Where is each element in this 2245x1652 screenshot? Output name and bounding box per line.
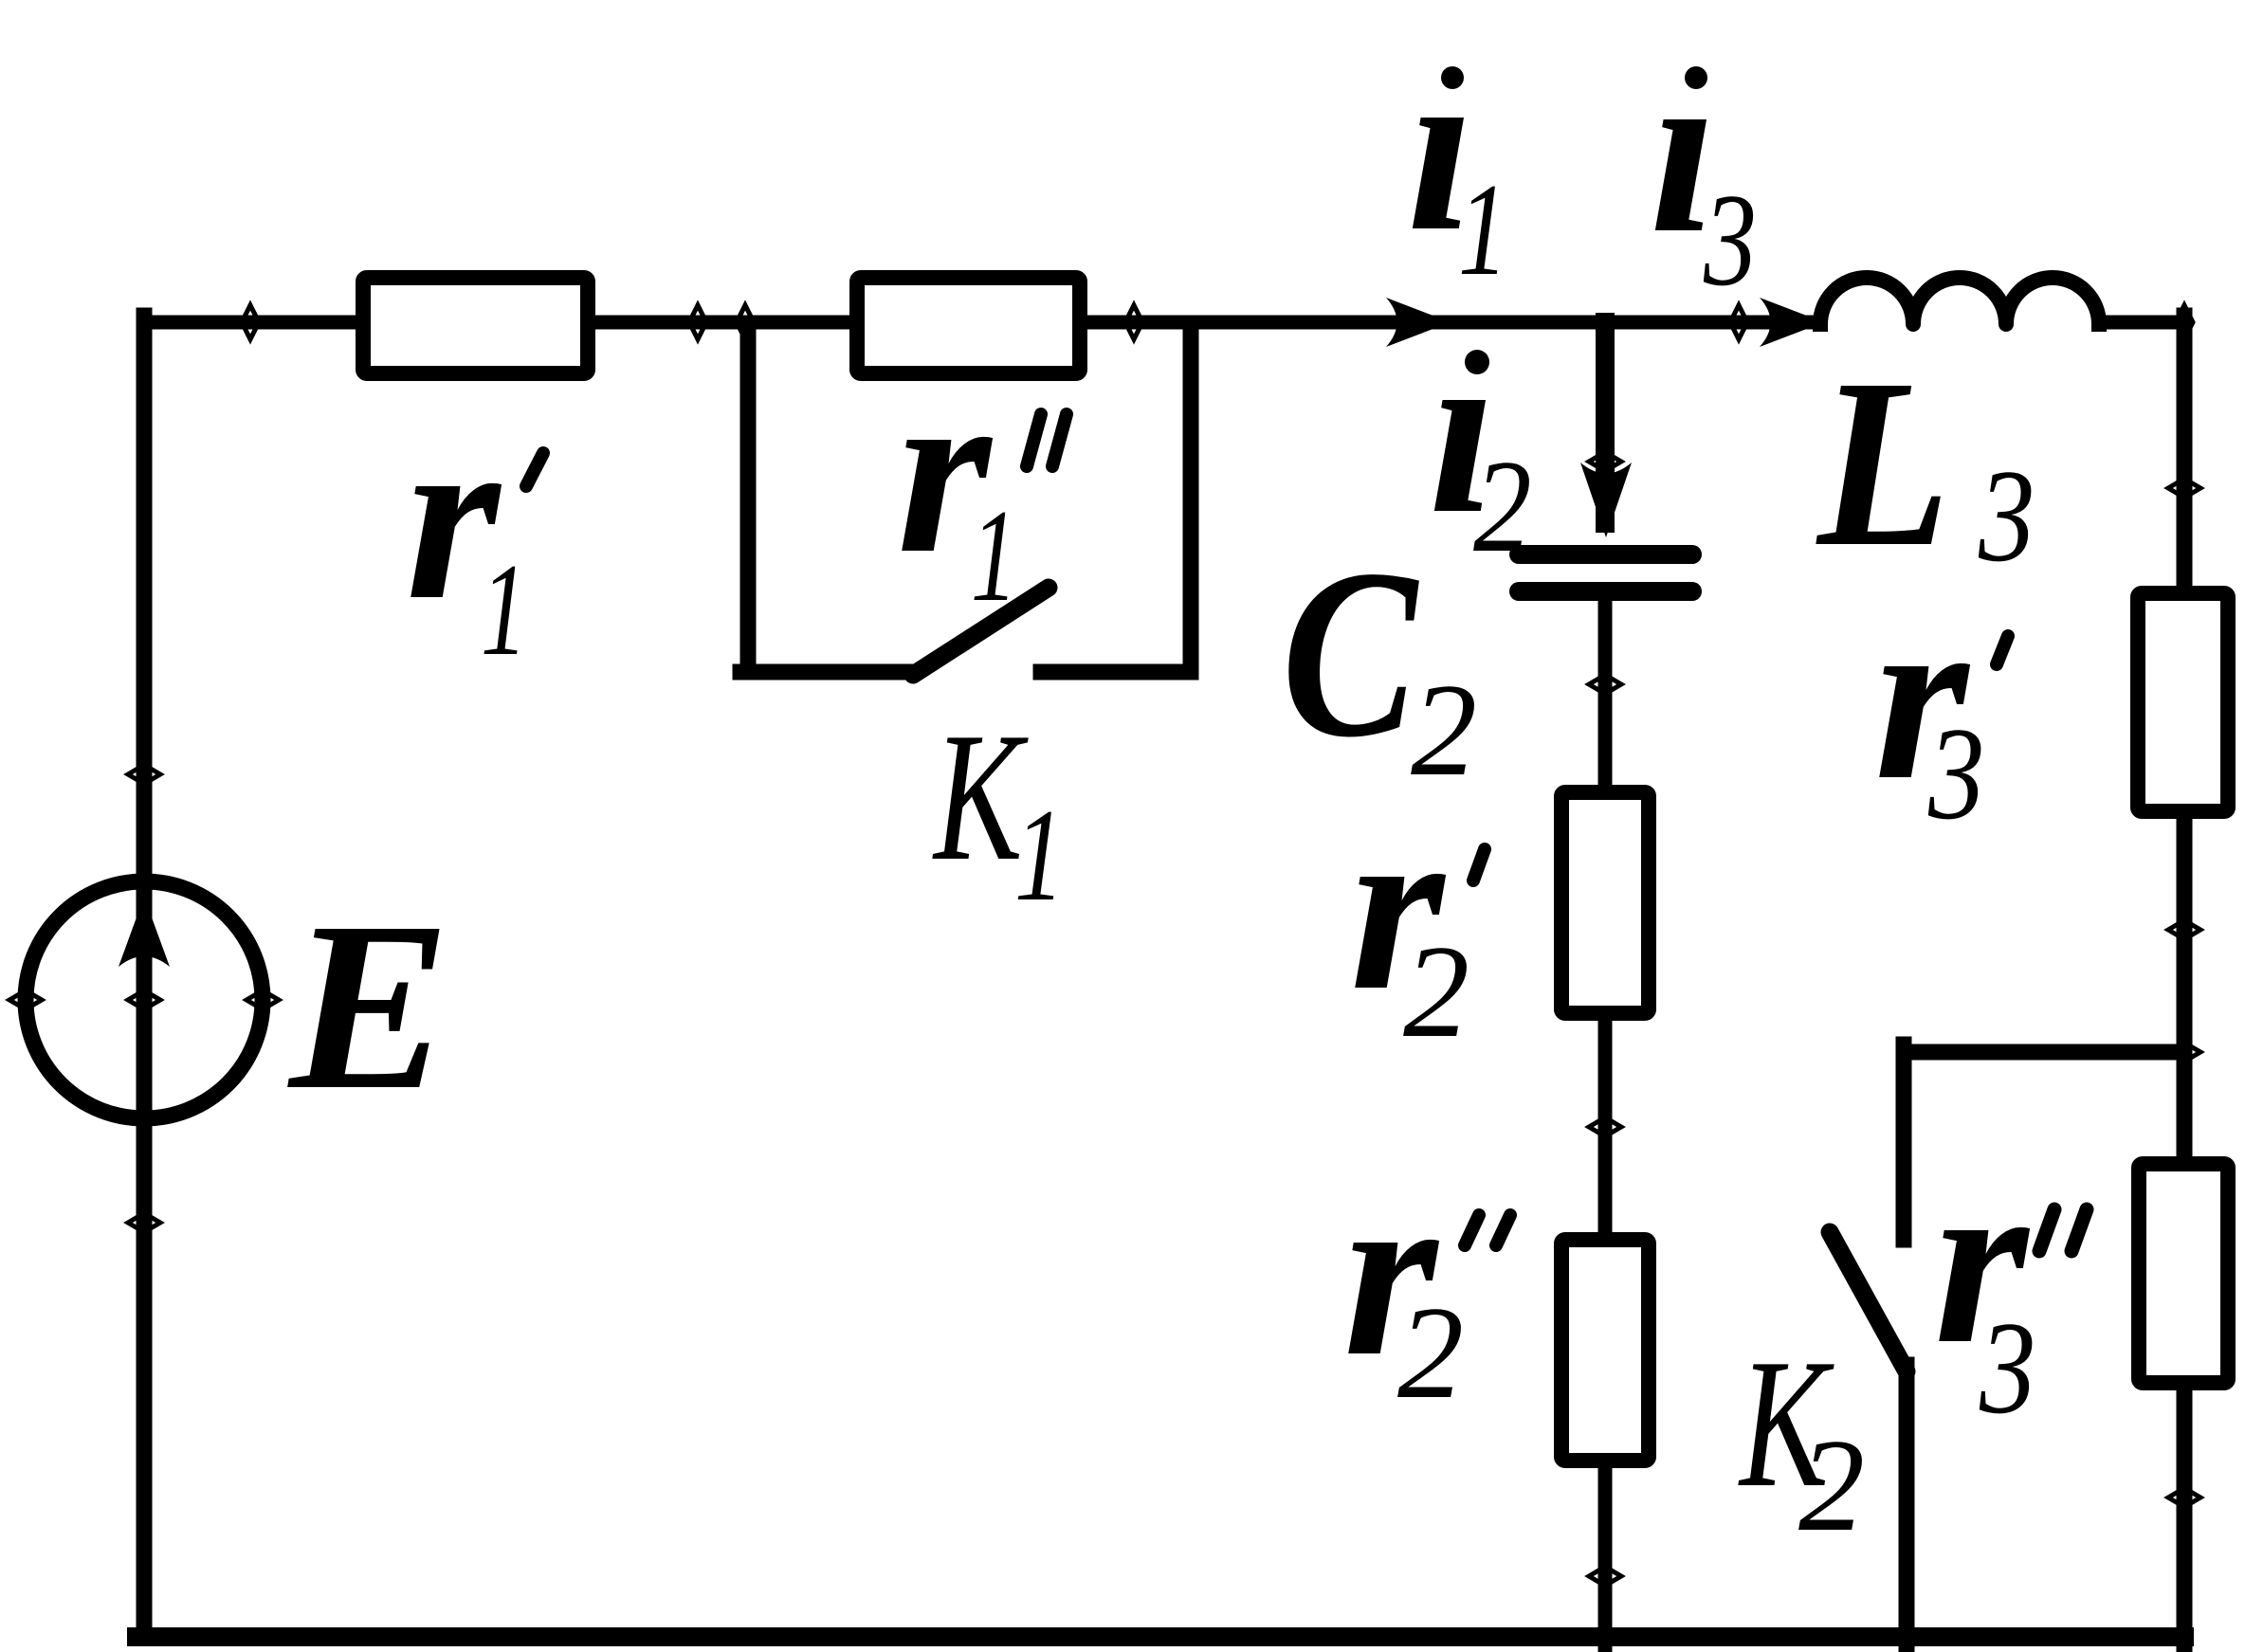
label E: [287, 873, 450, 1140]
switch K2 blade: [1830, 1232, 1907, 1371]
svg-text:2: 2: [1397, 1280, 1464, 1426]
wire K1 fixed contact: [1041, 664, 1191, 681]
node below capacitor: [1589, 675, 1621, 694]
node right vertical 3: [2168, 1488, 2200, 1507]
resistor r''1: [857, 278, 1080, 373]
switch K1 blade: [913, 588, 1049, 675]
svg-text:3: 3: [1979, 1295, 2035, 1442]
wire capacitor to r'2: [1598, 601, 1613, 785]
current arrow i2 head: [1580, 463, 1632, 537]
node top-right corner: [2176, 305, 2193, 339]
wire between r'1 and r''1: [595, 316, 849, 330]
label K1: [932, 695, 1064, 929]
resistor r'3: [2138, 593, 2228, 811]
resistor r'2: [1561, 792, 1649, 1013]
wire right vertical middle: [2177, 819, 2193, 1156]
wire right vertical upper: [2177, 316, 2193, 586]
node below circle: [128, 1213, 160, 1232]
wire middle branch stub: [1596, 322, 1615, 523]
wire top-left horizontal: [144, 316, 356, 330]
label r'2: [1350, 773, 1485, 1065]
label L3: [1816, 330, 2035, 597]
current arrow i3 head: [1760, 298, 1824, 347]
svg-text:3: 3: [1927, 700, 1984, 847]
resistor r'1: [363, 278, 588, 373]
wire K2 horizontal: [1904, 1044, 2184, 1061]
svg-text:3: 3: [1978, 443, 2035, 590]
wire right vertical lower: [2177, 1390, 2193, 1646]
svg-text:3: 3: [1703, 167, 1757, 314]
wire K1 loop right vertical: [1183, 330, 1199, 672]
node on top wire 2: [689, 305, 706, 339]
wire inductor to top-right corner: [2099, 316, 2184, 330]
node circle center: [128, 990, 160, 1009]
wire K2 stub: [1896, 1044, 1912, 1240]
wire r''1 to inductor: [1087, 316, 1820, 330]
label r'1: [406, 383, 543, 683]
svg-text:E: E: [287, 873, 450, 1140]
capacitor C2 top plate: [1519, 545, 1692, 564]
node on i2 arrow: [1589, 452, 1621, 471]
wire K1 loop bottom left: [740, 664, 913, 681]
node diamonds: [9, 305, 2200, 1586]
label i2: [1429, 297, 1532, 580]
node right vertical 2: [2168, 920, 2200, 939]
label r''2: [1343, 1139, 1510, 1426]
wire left vertical: [137, 316, 153, 1637]
current arrow i1 head: [1386, 298, 1451, 347]
label i3: [1650, 16, 1757, 314]
node between r'2 and r''2: [1589, 1117, 1621, 1136]
wire K2 lower vertical: [1899, 1365, 1915, 1646]
svg-text:2: 2: [1798, 1412, 1865, 1559]
wire K1 loop left vertical: [740, 330, 757, 672]
node left vertical: [128, 765, 160, 784]
node right vertical 1: [2168, 479, 2200, 498]
svg-text:1: 1: [1458, 156, 1508, 303]
svg-text:2: 2: [1473, 432, 1532, 580]
node on top wire 3: [737, 305, 754, 339]
label r''3: [1934, 1127, 2087, 1442]
label r'3: [1874, 563, 2008, 847]
node on top wire 4: [1125, 305, 1142, 339]
node circle right: [246, 990, 279, 1009]
node on top wire 5: [1730, 305, 1747, 339]
source E circle: [26, 881, 263, 1118]
node below r''2: [1589, 1567, 1621, 1586]
svg-text:C: C: [1282, 519, 1420, 788]
source E arrow head: [119, 897, 170, 967]
label C2: [1282, 519, 1477, 804]
svg-text:L: L: [1816, 330, 1950, 597]
inductor L3: [1820, 278, 2099, 324]
node circle left: [9, 990, 42, 1009]
svg-text:1: 1: [971, 482, 1017, 629]
label K2: [1738, 1321, 1865, 1559]
wire r''2 to bottom: [1598, 1468, 1613, 1646]
node on top wire 1: [242, 305, 259, 339]
svg-text:1: 1: [481, 536, 527, 683]
node K2 junction: [2168, 1043, 2200, 1062]
label i1: [1407, 14, 1508, 303]
resistor r''3: [2139, 1164, 2228, 1383]
svg-text:2: 2: [1403, 918, 1469, 1065]
svg-text:1: 1: [1014, 782, 1065, 929]
label r''1: [897, 336, 1067, 629]
capacitor C2 bottom plate: [1519, 582, 1692, 601]
resistor r''2: [1561, 1240, 1649, 1461]
wire r'2 to r''2: [1598, 1021, 1613, 1232]
wire bottom horizontal: [137, 1627, 2184, 1646]
